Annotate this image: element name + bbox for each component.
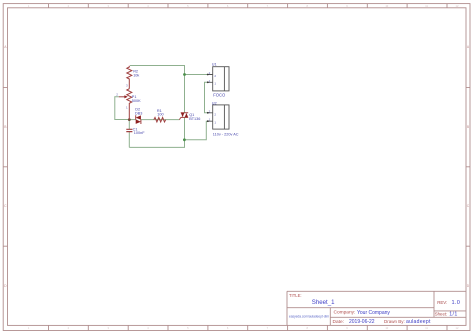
svg-text:DB3: DB3	[135, 111, 142, 115]
svg-text:110v - 220v AC: 110v - 220v AC	[213, 133, 239, 137]
svg-text:BT136: BT136	[189, 117, 200, 121]
svg-text:1/1: 1/1	[449, 312, 458, 318]
svg-text:U1: U1	[212, 62, 217, 66]
svg-text:1.0: 1.0	[452, 300, 461, 306]
svg-text:REV:: REV:	[437, 300, 447, 305]
svg-text:Sheet_1: Sheet_1	[312, 299, 335, 306]
svg-text:TITLE:: TITLE:	[289, 293, 302, 298]
svg-text:100nF: 100nF	[134, 131, 145, 135]
svg-text:10k: 10k	[133, 73, 139, 77]
svg-text:Date:: Date:	[333, 319, 344, 325]
svg-text:500K: 500K	[132, 99, 141, 103]
svg-text:Sheet:: Sheet:	[435, 312, 447, 317]
svg-text:Company:: Company:	[334, 310, 356, 316]
svg-text:Your Company: Your Company	[357, 310, 390, 316]
svg-text:2019-06-22: 2019-06-22	[349, 319, 375, 325]
svg-text:auladeept: auladeept	[406, 319, 431, 325]
svg-text:U2: U2	[212, 101, 217, 105]
svg-text:easyeda.com/auladeept-dim: easyeda.com/auladeept-dim	[289, 314, 329, 318]
svg-text:100: 100	[157, 112, 163, 116]
svg-text:FOCO: FOCO	[213, 92, 226, 97]
svg-text:Drawn By:: Drawn By:	[384, 319, 405, 324]
